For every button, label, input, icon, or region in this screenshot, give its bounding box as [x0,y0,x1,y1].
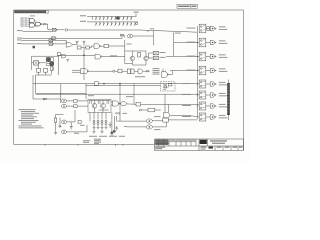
title block [155,139,244,151]
wire [168,119,197,121]
relay K4 [199,66,210,75]
label net2 [187,40,228,43]
wire [32,75,34,99]
wire [57,29,64,31]
lamp DS18 [210,115,216,119]
wire [81,46,94,48]
bottom-left circuit resistor R22 [54,118,56,122]
nand U12 [72,69,89,74]
transistor Q6 [101,103,106,108]
wire horizontal bus mid [33,83,199,85]
resistor network RN1 [80,12,139,20]
label net5 [182,82,227,85]
wire bus lower [86,85,161,87]
junction node C [113,70,115,72]
label [74,132,79,135]
capacitor C3 [108,122,111,129]
wire [73,44,78,46]
input signal labels [21,18,28,27]
diode CR3 [147,70,149,72]
ground [101,129,104,134]
label net6 [182,93,227,96]
junction node A [65,29,67,31]
lamp DS5 [146,119,152,123]
revision strip [14,10,48,13]
capacitor C7 [93,128,108,129]
lamp DS14 [210,68,216,72]
label net4 [187,68,228,71]
signal label row4 [17,39,22,42]
wire [36,92,86,94]
junction node B [83,55,84,56]
signal label row3 [17,37,23,40]
nand U11 [95,54,102,59]
relay K5 [199,80,210,88]
wire right feeds [36,32,199,94]
nand U15 [111,101,120,106]
label mid [126,95,133,98]
ground [67,59,70,61]
relay K2 [199,38,210,47]
lamp DS0 [127,34,133,38]
right bus [196,26,198,119]
resistor R19 [90,100,109,104]
label DS5 name [154,115,161,118]
bus wire [59,54,96,56]
resistor R31 [57,53,60,56]
relay K6 [199,91,210,99]
wire [102,56,125,58]
zone tick [122,144,124,146]
junction node D [103,83,104,84]
driver A1 [153,51,158,55]
gate U14 [138,69,143,73]
border frame [14,10,244,151]
wire [89,70,113,72]
connector stub [33,46,36,49]
ground [54,132,57,134]
wire [36,75,39,93]
resistor R14 [37,68,41,72]
wire [56,37,120,39]
wire [152,122,166,127]
amplifier block outline [88,99,111,112]
ground [115,126,118,130]
wire [56,115,64,133]
label net7 [182,104,227,107]
junction node E [119,83,120,84]
inverter U5 [49,39,54,42]
resistor R20 [148,108,155,112]
resistor R12 [104,44,109,47]
resistor R18 [95,82,99,85]
wire [120,103,121,105]
wire [141,109,161,111]
resistor R10 [77,46,81,49]
lamp DS1 [61,99,66,103]
lamp DS17 [210,104,216,108]
gate U9 [62,54,66,58]
resistor R15 [44,68,48,72]
resistor R23 [74,100,78,103]
ground [93,129,96,134]
wire [86,84,134,122]
gate U1B [30,23,35,27]
diode CR1 [44,23,46,25]
resistor network RN2 [80,21,138,26]
reference notes stack [83,139,101,144]
wire [89,100,110,112]
lamp DS15 [210,82,216,86]
label net3 [187,54,228,57]
capacitor C5 [111,132,114,137]
nand U8 [94,44,101,49]
lamp DS2 [61,104,66,108]
resistor R16 [51,67,54,71]
zone tick [77,144,79,146]
resistor R21 [163,118,169,122]
tick [147,30,149,32]
lamp DS11 [210,26,216,30]
relay K1 [199,24,210,33]
wire [117,120,146,122]
diode CR5 [59,126,61,128]
signal label row5 [17,42,22,45]
label row caps [89,135,125,138]
resistor R24 [74,105,78,108]
wire [125,51,146,65]
resistor R30 [207,27,210,31]
wire [170,115,199,117]
wire [22,43,50,45]
lamp DS12 [210,40,216,44]
label [80,124,85,127]
connector J1 [227,80,230,121]
zone tick [44,144,46,146]
inverter U4 [52,37,57,40]
signal label row2 [17,29,23,32]
wire [112,113,117,132]
label net8 [182,115,227,118]
title block logo [200,140,207,144]
wire [42,23,44,25]
wire [127,126,146,128]
lamp DS13 [210,54,216,58]
node G [116,113,127,115]
lamp DS4 [61,130,66,134]
wire [67,101,88,132]
capacitor C6 [113,130,115,132]
wire [46,24,48,29]
wire long bus [67,30,197,32]
resistor R11 [86,46,90,49]
relay K7 [199,102,210,110]
capacitor C2 [83,41,86,46]
label riser [150,27,155,30]
label [110,54,117,57]
wire [39,65,52,75]
transistor Q3 [46,58,53,62]
relay K3 [199,52,210,61]
drawing number box [177,4,197,8]
relay K8 [199,113,210,121]
label net1 [187,26,228,29]
resistor R25 [78,121,81,124]
label [135,75,145,78]
label above gates [30,15,35,18]
wire [149,53,154,58]
wire [23,30,53,32]
notes text block [19,109,44,128]
gate U1A [30,19,35,23]
resistor R17 [118,69,122,73]
wire [101,45,104,47]
lamp DS3 [61,120,66,124]
label [88,94,94,97]
wire [23,38,52,40]
label block [153,68,160,74]
pcb outline box [161,82,176,91]
label [127,43,132,46]
capacitor C1 [76,41,79,45]
gate U17 [164,94,170,118]
driver A2 [153,56,158,60]
gate W2 [162,69,173,78]
transistor Q1 [130,51,134,61]
wire [60,84,62,103]
wire [33,98,61,100]
gate U13 [127,69,134,74]
wire [22,39,50,41]
gate U2 [35,21,42,26]
input stub wires [28,18,30,26]
inverter U3 [48,28,58,31]
wire [54,43,66,45]
lamp DS16 [210,93,216,97]
wire [115,70,147,72]
wire [133,35,154,37]
wire block drops [90,113,106,120]
resistor R26 [136,102,141,106]
subcircuit enclosure [32,55,59,75]
trimpot TP1 [93,120,107,124]
tick mark [115,144,117,146]
or-gate U7 [66,42,73,47]
transistor Q5 [92,103,97,108]
label [124,125,127,128]
buffer U16 [121,102,127,106]
inverter U6 [49,43,54,46]
diode CR2 [120,34,125,38]
inverter U10 [32,61,46,66]
wire [90,120,106,128]
resistor R13 [138,53,141,58]
transistor Q2 [144,51,148,61]
label [160,56,166,59]
label DS6 name [154,128,161,131]
wire [109,40,125,64]
transistor Q4 [46,57,54,66]
label feed [175,32,181,35]
wire [126,103,199,106]
label [160,51,166,54]
junction node F [139,109,141,111]
ground [70,122,73,129]
wire [83,48,85,80]
diode CR4 [44,98,47,100]
wire [152,120,163,122]
wire [54,40,66,43]
wire riser [152,31,154,46]
lamp DS6 [146,125,152,129]
